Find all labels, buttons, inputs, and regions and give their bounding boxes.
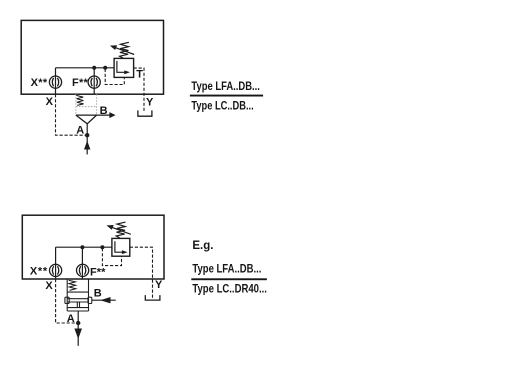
svg-text:X**: X**: [31, 77, 48, 89]
junction dot at F tap (bottom): [80, 245, 84, 249]
relief valve U1 body (top): [114, 58, 134, 77]
port B arrow pointing left (bottom): [100, 297, 110, 303]
svg-text:T: T: [136, 69, 143, 81]
svg-text:F**: F**: [90, 266, 106, 278]
svg-text:X: X: [46, 96, 54, 108]
svg-text:Type LC..DB...: Type LC..DB...: [191, 101, 253, 113]
cartridge valve box (bottom): [67, 279, 88, 311]
adjustment arrow through spring (top): [110, 45, 134, 54]
control block outline (bottom diagram): [22, 215, 164, 279]
svg-text:A: A: [76, 124, 84, 136]
pilot line from X** corner to relief valve (top): [56, 67, 115, 69]
piston right cap (bottom): [88, 297, 92, 303]
drain line from relief valve to T/Y (top): [134, 68, 144, 113]
adjustable spring of relief valve (top): [120, 42, 129, 58]
orifice F** (bottom): [77, 264, 89, 276]
svg-text:Type LFA..DB...: Type LFA..DB...: [192, 264, 261, 276]
relief valve U1 flow arrow (top): [117, 61, 130, 74]
svg-text:B: B: [94, 287, 102, 299]
pilot feedback line under relief valve (top): [105, 69, 124, 85]
piston stem (bottom): [77, 302, 79, 308]
cartridge piston bar (bottom): [67, 299, 88, 302]
junction dot at feedback tap (top): [103, 66, 107, 70]
svg-text:Type LC..DR40...: Type LC..DR40...: [192, 284, 267, 296]
wire: X** orifice vertical (top): [55, 68, 57, 94]
adjustment arrow through spring (bottom): [107, 225, 131, 234]
pilot line from X** corner to relief valve (bottom): [56, 246, 112, 248]
port A line (top): [86, 124, 88, 155]
control block outline (top diagram): [21, 20, 163, 94]
divider rule (top caption): [190, 95, 263, 97]
tank symbol Y (bottom): [145, 295, 160, 300]
svg-text:Y: Y: [146, 97, 154, 109]
cartridge poppet seat line + port B line (top): [76, 114, 111, 116]
wire: X** orifice vertical (bottom): [55, 247, 57, 279]
junction dot at A (top): [85, 133, 89, 137]
piston left cap (bottom): [65, 297, 69, 303]
svg-text:Type LFA..DB...: Type LFA..DB...: [191, 81, 260, 93]
divider rule (bottom caption): [191, 278, 267, 280]
flow arrow into A (top): [84, 141, 90, 150]
orifice X** (bottom): [50, 264, 62, 276]
junction dot at F tap (top): [92, 66, 96, 70]
drain line from relief valve to Y (bottom): [130, 247, 153, 298]
svg-text:X**: X**: [30, 266, 48, 278]
flow arrow out of A (bottom): [74, 329, 82, 340]
cartridge poppet cone (top): [76, 115, 97, 124]
wire: F** orifice vertical (bottom): [81, 247, 83, 279]
junction dot at feedback tap (bottom): [100, 245, 104, 249]
svg-text:X: X: [45, 280, 53, 292]
port B line (bottom): [92, 299, 116, 301]
tank symbol Y (top): [138, 110, 152, 116]
pilot feedback line under relief valve (bottom): [102, 248, 121, 265]
cartridge spring (bottom): [69, 280, 76, 290]
port B arrow (top): [109, 112, 115, 118]
junction dot at A (bottom): [76, 321, 80, 325]
adjustable spring of relief valve (bottom): [116, 222, 125, 238]
relief valve flow arrow (bottom): [115, 241, 128, 254]
relief valve body (bottom): [112, 238, 130, 256]
cartridge spring (top): [76, 95, 83, 105]
svg-text:E.g.: E.g.: [192, 240, 213, 252]
X pilot link below block (bottom): [56, 279, 76, 323]
svg-text:B: B: [100, 105, 108, 117]
wire: F** orifice vertical (top): [93, 68, 95, 94]
port A line (bottom): [77, 311, 79, 346]
svg-text:F**: F**: [72, 77, 89, 89]
X pilot line below block (top): [56, 94, 86, 135]
svg-text:Y: Y: [155, 279, 163, 291]
cartridge valve box (top): [76, 94, 97, 115]
orifice X** (top): [49, 76, 61, 88]
orifice F** (top): [88, 76, 100, 88]
